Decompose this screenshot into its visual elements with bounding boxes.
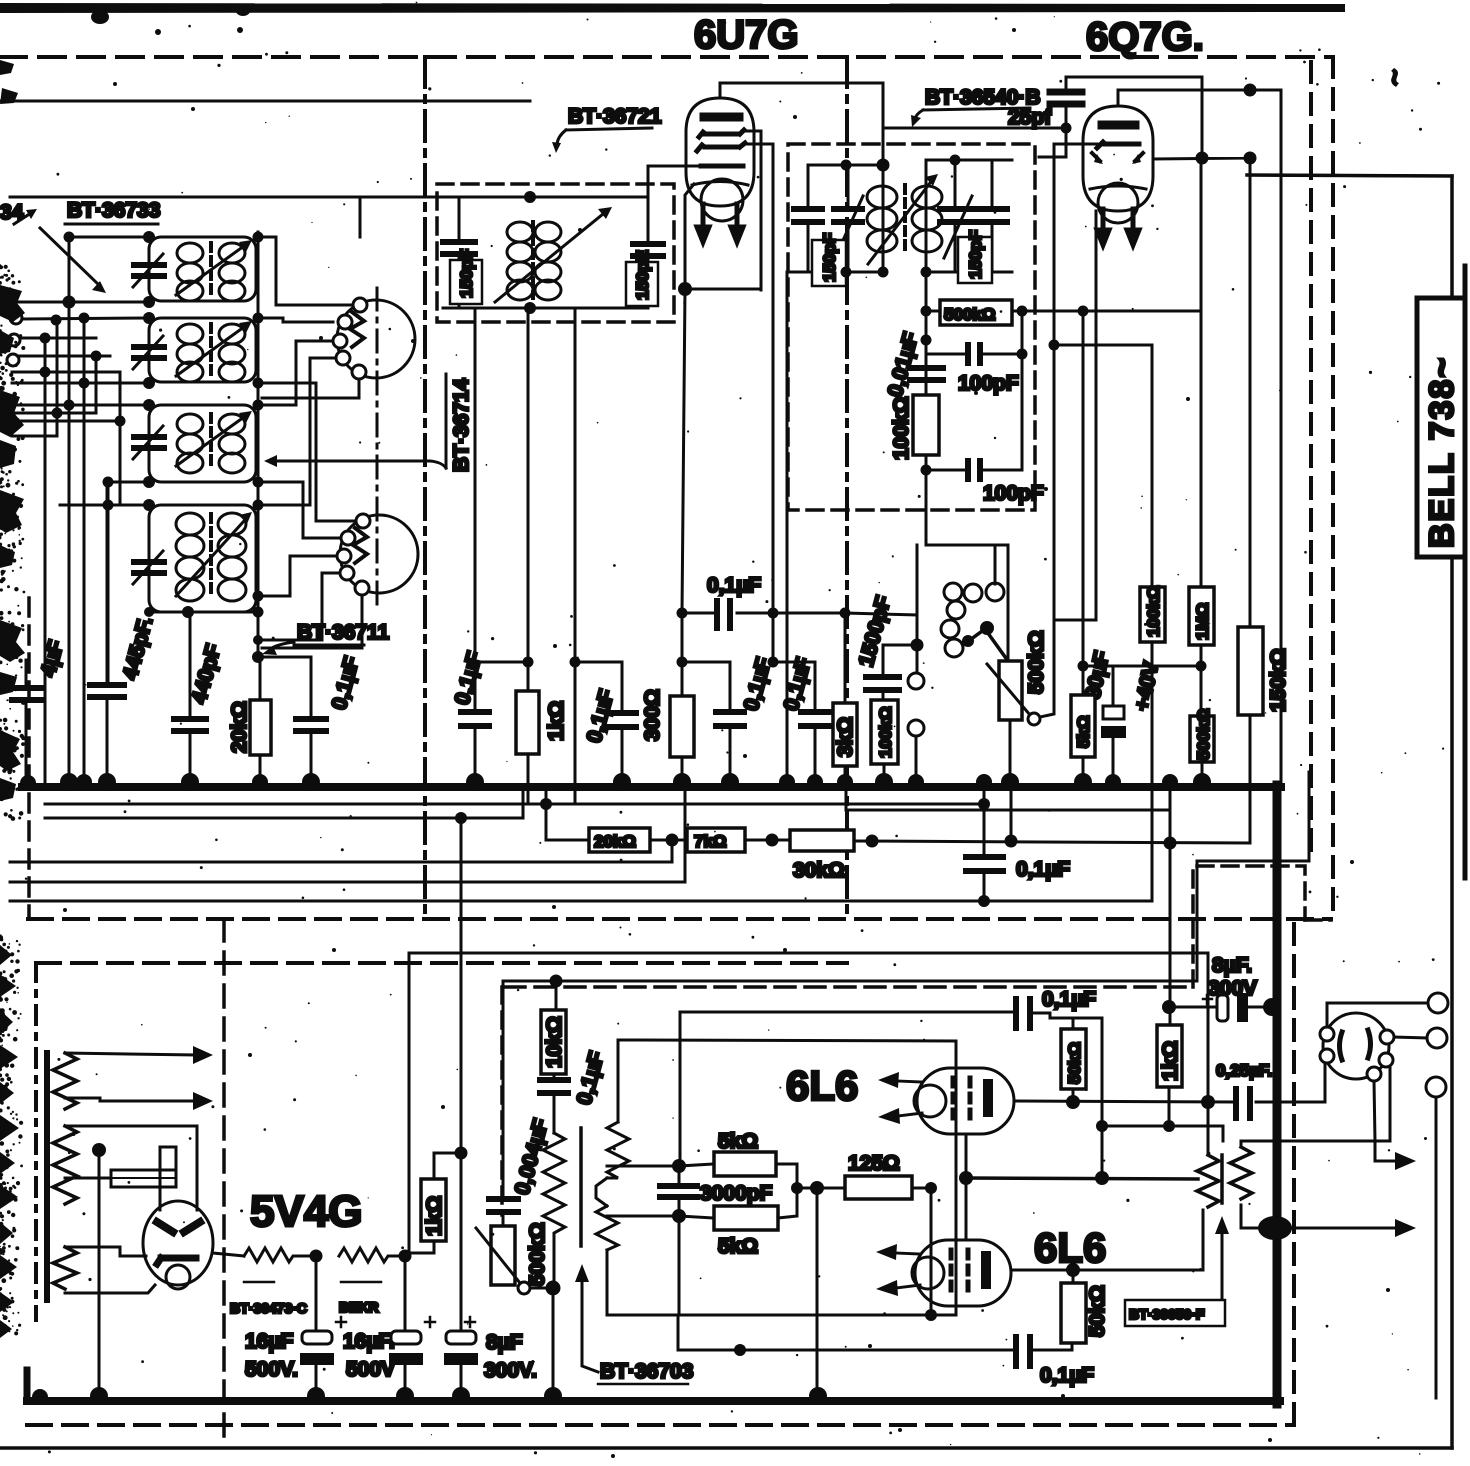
band switch SW2 body (340, 515, 418, 593)
wire cathodes join vertical (965, 1134, 968, 1240)
junction dot 1169 1126 (1163, 1120, 1175, 1132)
wire stub 685 bus-882 (684, 790, 687, 882)
wire 8uF psu bottom (460, 1365, 463, 1393)
wire IF1 vert x575 down (574, 308, 577, 803)
label line BT-36473-C (244, 1281, 274, 1284)
top border bar (0, 3, 1345, 13)
dashed box top section right outer edge (1331, 57, 1335, 918)
wire IF1 top node (443, 196, 648, 199)
label BT-36714 arrow (272, 461, 446, 468)
capacitor 16uF no1 plus sign (336, 1317, 346, 1327)
tube 6Q7G heater arrow left (1097, 209, 1109, 245)
label box IF2 150pF right (958, 237, 992, 283)
tube 6U7G grid2 dashes (697, 143, 745, 151)
band switch SW2 wiper zigzag (353, 528, 367, 563)
tuned circuit S1 loop (149, 237, 256, 301)
svg-text:BT·36703: BT·36703 (600, 1360, 693, 1383)
svg-text:3kΩ: 3kΩ (834, 717, 857, 757)
wire grid line vertical x956 (955, 1041, 958, 1315)
junction dot 917 645 (911, 639, 924, 652)
tube 6Q7G plate (1102, 121, 1135, 130)
cap ant left plates (12, 688, 41, 700)
coil S3 core (209, 414, 213, 468)
fuse inner bar (111, 1177, 176, 1179)
svg-text:10kΩ: 10kΩ (543, 1016, 566, 1068)
wire y662 link 773-815 (773, 662, 815, 712)
tube 6L6 no2 plate bar (981, 1256, 991, 1284)
wire bundle h y337 (20, 337, 96, 340)
wire b+ feed x461 vertical (460, 818, 463, 1331)
antenna terminal A1 (10, 312, 22, 324)
coil IF1 right (535, 222, 561, 300)
transformer winding W3 (53, 1247, 77, 1289)
capacitor IF2 varcap right (940, 209, 970, 222)
wire 6U7G cathode lead (685, 184, 694, 288)
wire bundle h y319 (22, 318, 149, 319)
coil IF1 core (531, 222, 535, 298)
junction dot W2 tap (92, 1143, 106, 1157)
capacitor 0,1uF no2 (608, 713, 636, 727)
label BT-36721 underline and arrow (557, 128, 652, 144)
varcap S4 arrow (133, 551, 163, 584)
junction dots S columns (143, 231, 194, 618)
wire secondary top y1141 (1241, 1060, 1390, 1147)
wire speaker pin5 (1374, 1081, 1375, 1141)
tube 6U7G heater arrow right (731, 204, 743, 242)
resistor 300 ohm body (670, 696, 694, 757)
svg-text:1MΩ: 1MΩ (1193, 603, 1212, 640)
junction dot 672 840 (666, 834, 679, 847)
wire IF1 left cap leads (458, 197, 461, 308)
wire bundle h y405 (12, 404, 149, 407)
coil S2 core (209, 324, 213, 376)
resistor 100k avc body (1140, 587, 1165, 642)
wire 6U7G grid3 lead to IF1 (648, 166, 701, 244)
wire 5k bias vertical (1082, 311, 1085, 695)
wire 01uF5 bottom (814, 726, 817, 785)
svg-text:BELL 738~: BELL 738~ (1423, 356, 1461, 548)
wire 16uF1 leads (315, 1256, 318, 1393)
wire pot bottom to bus (1009, 720, 1012, 785)
wire W3 leads to rectifier (65, 1247, 155, 1293)
label BT-36650-F arrow (1221, 1234, 1224, 1303)
wire bias line y666 (1083, 665, 1201, 668)
wire IF2 cap1 leads (807, 165, 810, 272)
capacitor IF2 150pF left fixed (794, 209, 822, 222)
wire grid1 feed corner (617, 1040, 620, 1122)
tuned circuit S4 loop (149, 505, 256, 612)
svg-text:BT·36711: BT·36711 (297, 621, 390, 644)
junction dot 1083 666 (1078, 661, 1089, 672)
resistor 125 ohm body (845, 1176, 912, 1199)
wire 500k det left lead (926, 310, 940, 313)
junction dot 966 1178 (959, 1171, 973, 1185)
wafer wiper dots (962, 621, 994, 647)
switch contact lower (908, 720, 924, 736)
junction dot 25pF node (1061, 123, 1072, 134)
wire S1 top tap (256, 237, 276, 305)
tube 6U7G cathode arc (692, 182, 748, 186)
wire IF1 bottom node (443, 307, 648, 310)
capacitor 16uF no1 minus plate (300, 1353, 334, 1365)
wire switch1 pin5 drop (262, 378, 359, 398)
varcap S3 (134, 437, 164, 448)
junction dot 553 1288 (546, 1281, 561, 1296)
label box IF1 150pF right (626, 262, 658, 306)
tube 5V4G filament bar (157, 1258, 196, 1264)
capacitor 1500pF (866, 677, 899, 690)
wire det chain bottom (926, 455, 1008, 661)
wire avc branch y345 (1054, 345, 1152, 587)
junction dot 1208 1102 (1201, 1095, 1215, 1109)
tuned circuit S2 loop (149, 318, 256, 382)
svg-text:5kΩ: 5kΩ (718, 1130, 758, 1153)
wire S3 bottom tap to switch2 (256, 482, 341, 538)
tone indicator bar (579, 1128, 583, 1246)
resistor 30k ohm body h (790, 830, 854, 851)
potentiometer wiper circle (1028, 713, 1040, 725)
tube 6L6 no1 plate bar (983, 1084, 993, 1112)
tube 6L6 no1 envelope (917, 1068, 1014, 1134)
resistor zigzag tall tone (543, 1133, 565, 1288)
resistor 5k bias body (1071, 695, 1095, 757)
resistor zigzag splitter lower (596, 1206, 618, 1250)
wire bus bottom heavy horizontal (27, 1397, 1280, 1405)
junction dot 528 662 (523, 657, 534, 668)
coil IF2 core (903, 185, 907, 255)
capacitor 16uF no2 plus sign (425, 1317, 435, 1327)
svg-text:16µF.: 16µF. (343, 1330, 395, 1353)
wire splitter junction to caps (607, 1166, 679, 1216)
antenna terminal A2 (8, 334, 20, 346)
wire 6Q7G plate lead top (1118, 90, 1281, 106)
wire bundle h y372 (12, 371, 120, 374)
label BT-36540-B underline arrow (915, 108, 1030, 119)
wire diode return y158 (1153, 158, 1452, 176)
wire 20k-7k link (650, 839, 687, 842)
coil S2 left (177, 324, 203, 382)
wire 1k psu top (434, 1153, 461, 1179)
dashed box bottom section right edge (1292, 924, 1296, 1425)
wire fuse leads (65, 1147, 176, 1210)
output terminal 3 (1426, 1077, 1446, 1097)
coil S3 right (219, 414, 245, 473)
tube 6U7G envelope (686, 98, 754, 206)
resistor 100k ohm det body (913, 395, 939, 455)
svg-text:5kΩ: 5kΩ (1074, 715, 1093, 748)
wire 1M vertical top (1200, 158, 1203, 587)
resistor 500k det box (940, 300, 1012, 325)
capacitor 8uF psu plus sign (465, 1317, 475, 1327)
label BT-36711 arrow (270, 642, 294, 649)
wire to 1k psu (405, 1241, 434, 1253)
junction dot 845 613 (840, 608, 851, 619)
dashed box bottom section left edge (34, 963, 38, 1320)
wire plate1 line y1102 (1014, 1056, 1325, 1102)
svg-text:BT·36650·F: BT·36650·F (1129, 1306, 1205, 1322)
wire 6U7G plate top lead (720, 83, 883, 162)
wire IF2 varcap1 leads (847, 165, 850, 272)
coil S1 left (177, 243, 203, 301)
wire IF2 left top node (811, 164, 883, 167)
capacitor 0,25uF plates (1236, 1089, 1250, 1118)
svg-text:0,1µF: 0,1µF (1040, 1364, 1094, 1387)
wire speaker top pin (1327, 1003, 1428, 1027)
label BT-36650-F box (1125, 1300, 1225, 1326)
junction dot 461 1153 (455, 1147, 468, 1160)
wire cap 01uF0 bottom (310, 731, 313, 785)
svg-text:50kΩ: 50kΩ (1086, 1285, 1109, 1337)
resistor 1M ohm body (1189, 587, 1214, 645)
capacitor 0,1uF out1 (1016, 999, 1030, 1028)
junction dot 1250 90 (1244, 84, 1257, 97)
label box IF2 150pF left (812, 240, 846, 286)
wire IF2 left bottom node (787, 271, 883, 274)
wire rectifier output (213, 1253, 244, 1256)
wire 5k right joins (776, 1164, 845, 1218)
label fragment arrow (14, 213, 31, 224)
tube 6L6 no1 dome circle (914, 1085, 946, 1117)
resistor 50k no1 body (1061, 1029, 1086, 1089)
capacitor IF1 150pF right (633, 244, 663, 256)
wire bundle h y421 (12, 420, 120, 423)
wire IF2 right top node (926, 159, 1012, 162)
output terminal 2 (1427, 1028, 1447, 1048)
coil S4 core (209, 514, 213, 598)
antenna terminal A3 (7, 354, 19, 366)
wire y662 link 475-528 (475, 661, 528, 664)
wire y662 link 682-730 (682, 662, 730, 712)
band switch SW1 body (337, 300, 415, 378)
wire stub band vertical (359, 197, 362, 237)
varcap S1 (134, 265, 164, 276)
wire S3 tap x296 (256, 341, 333, 405)
wire 100pF upper (926, 311, 1022, 354)
capacitor 30uF electrolytic plus plate (1103, 706, 1124, 719)
resistor 150k ohm body (1238, 627, 1263, 715)
wire bundle h y482 (108, 481, 149, 484)
wire detector chain top (925, 272, 928, 395)
svg-text:BT·36721: BT·36721 (568, 105, 662, 128)
coil S1 core (209, 243, 213, 295)
dashed box bottom section top edge (36, 961, 847, 965)
wire 817 down to bus2 (816, 1188, 819, 1393)
svg-text:500kΩ: 500kΩ (526, 1222, 549, 1286)
band switch SW2 pins (337, 514, 370, 595)
svg-text:100kΩ: 100kΩ (876, 707, 895, 758)
coil S3 tuning arrow (176, 417, 244, 466)
junction dot 1250 158 (1244, 152, 1257, 165)
wire transformer primary top (1207, 953, 1210, 1155)
wire 100k avc bottom (1151, 642, 1154, 901)
junction dot 817 1188 (810, 1181, 824, 1195)
wire switch1 pin row y305 (276, 304, 353, 307)
tube 6L6 no1 grid dashes (953, 1078, 970, 1118)
capacitor 440pF (174, 719, 206, 731)
wire switch2 pin5 drop (262, 594, 362, 648)
wire ant cap v (25, 660, 28, 785)
capacitor 8uF 300V minus plate (1237, 993, 1248, 1022)
wire 6Q7G cathode down (1095, 211, 1098, 620)
tuned circuit S3 loop (149, 405, 256, 482)
svg-text:BEKR: BEKR (339, 1299, 379, 1315)
tube 5V4G envelope (143, 1201, 213, 1285)
junction dot det 340 (921, 335, 932, 346)
svg-text:30kΩ: 30kΩ (793, 859, 845, 882)
wire 5k bias bottom (1082, 757, 1085, 785)
wire 50k1 top lead (1072, 1018, 1075, 1029)
wire 10k top corner (502, 981, 505, 1199)
wire screen feed y1012 (680, 1011, 1016, 1014)
wire bundle h y411 (12, 412, 96, 415)
coil IF1 tuning arrow (495, 214, 603, 302)
tube 6U7G grid3 dashes (701, 164, 743, 169)
svg-text:150pF: 150pF (457, 249, 476, 298)
dashed box top section right inner edge (1309, 62, 1313, 860)
svg-text:0,1µF: 0,1µF (707, 574, 761, 597)
junction dot 1022 311 (1017, 306, 1028, 317)
output transformer core bar (1220, 1155, 1224, 1203)
wire bundle v x120 (119, 372, 122, 505)
wire heavy left stub (24, 1370, 31, 1398)
label BT-36733 underline (65, 223, 158, 226)
wire cathode to grid join (1054, 619, 1096, 622)
svg-text:5V4G: 5V4G (250, 1187, 363, 1236)
wire top long horizontal (0, 100, 530, 103)
capacitor 0,1uF tone (540, 1080, 568, 1093)
wire IF1 vert x475 down (474, 308, 477, 662)
wire cathode bias h (685, 288, 761, 291)
junction dot 1073 1270 (1066, 1263, 1080, 1277)
wire bundle h y355 (19, 355, 110, 358)
svg-text:6Q7G.: 6Q7G. (1086, 15, 1204, 59)
wire 6U7G grid2 lead (744, 144, 773, 662)
resistor 500k agc body (1190, 716, 1214, 762)
label BT-36703 arrow (582, 1282, 598, 1372)
junction dot 316 1256 (310, 1250, 323, 1263)
capacitor 8uF 300V plus plate (1217, 995, 1228, 1021)
resistor 5k lower body (714, 1206, 778, 1230)
svg-text:300V.: 300V. (484, 1359, 537, 1382)
svg-text:500kΩ: 500kΩ (944, 305, 995, 324)
bus bumps row (20, 773, 1211, 791)
coil IF2 left (867, 165, 897, 272)
varcap S4 (134, 562, 164, 573)
dashed separator IF vertical (845, 57, 849, 918)
capacitor 16uF no2 plus plate (391, 1331, 421, 1344)
resistor 50k no2 body (1061, 1283, 1086, 1343)
tube 5V4G anode right (184, 1222, 200, 1232)
coil S4 tuning arrow (176, 521, 244, 596)
svg-text:6L6: 6L6 (786, 1062, 858, 1109)
junction dot 772 840 (766, 834, 779, 847)
capacitor 8uF 300V plus sign (1203, 995, 1212, 1004)
wire switch2 pin4 tap (262, 573, 340, 640)
svg-text:8µF: 8µF (486, 1331, 523, 1354)
junction blob heavy 1228 (1258, 1216, 1292, 1240)
switch contact upper (908, 673, 924, 689)
svg-text:50kΩ: 50kΩ (1065, 1042, 1084, 1084)
wafer switch circles (941, 583, 1004, 657)
speaker socket pins (1320, 1027, 1394, 1081)
wire 50k2 top (1072, 1270, 1075, 1283)
junction dot 1102 1178 (1095, 1171, 1109, 1185)
wire 25pF top line (1066, 77, 1202, 158)
junction dot 872 841 (866, 835, 879, 848)
varcap S2 arrow (133, 336, 163, 369)
transformer winding W1 (53, 1053, 77, 1109)
junction dot 6U7G cathode (678, 282, 692, 296)
page border bottom edge (0, 1446, 1452, 1450)
wire 7k-30k link (745, 839, 790, 842)
tube 6U7G heater arrow left (697, 204, 709, 242)
wire 3k leads (844, 613, 847, 785)
wire bus heavy right vertical (1273, 785, 1282, 1404)
wire splitter mid jog (596, 1178, 607, 1206)
heater feed arrow 1 (65, 1053, 196, 1055)
wire 1k if leads (527, 662, 530, 803)
capacitor 8uF psu minus plate (444, 1353, 478, 1365)
tube 6Q7G diode arrows (1092, 153, 1143, 161)
junction dot 1201 666 (1196, 661, 1207, 672)
svg-text:100pF: 100pF (958, 372, 1019, 395)
wire grid 6Q7G down (1053, 144, 1056, 620)
wire 500k det right to 1M (1012, 310, 1201, 313)
tube 6L6 no1 cathode arrow upper (898, 1081, 922, 1082)
wire S4 tap to switch2 (256, 556, 337, 596)
wire bundle h y505 (60, 504, 149, 507)
wire 150k bottom (1249, 715, 1252, 843)
svg-text:BT·36733: BT·36733 (67, 199, 160, 222)
tube 6Q7G base circle (1098, 183, 1138, 223)
label BT-36714 underline (445, 374, 448, 468)
junction dot 773 613 (768, 608, 779, 619)
wire stub 672 down (671, 840, 674, 862)
resistor 3k ohm body boxed (833, 703, 857, 766)
potentiometer tone wiper circle (518, 1282, 530, 1294)
potentiometer 500k volume body (999, 661, 1022, 720)
wire bundle h y435 (12, 435, 57, 438)
wire step to cathode line (677, 1315, 680, 1350)
wire 01uF2 bottom (621, 727, 624, 785)
wire speaker right pin (1394, 1037, 1427, 1038)
speaker socket body (1323, 1013, 1389, 1079)
junction dot 773 662 (768, 657, 779, 668)
wire bundle v x57 (56, 320, 59, 436)
svg-text:100kΩ: 100kΩ (1144, 586, 1163, 637)
capacitor IF2 150pF right fixed (976, 209, 1007, 222)
wire 20k leads (259, 657, 262, 785)
wire 3000pF leads (678, 1166, 681, 1315)
noise left edge lower sawtooth (0, 945, 19, 1338)
resistor 7k ohm boxed h (687, 828, 745, 852)
svg-text:0,1µF: 0,1µF (1016, 858, 1070, 881)
capacitor 0,1uF no5 (801, 712, 829, 726)
svg-text:500V.: 500V. (245, 1358, 298, 1381)
junction dot 931 1188 (925, 1182, 937, 1194)
wire bundle v x96 (95, 356, 98, 413)
svg-text:500kΩ: 500kΩ (1025, 630, 1048, 694)
varcap IF2 left arrow (835, 196, 863, 258)
svg-text:500V: 500V (346, 1358, 395, 1381)
svg-text:1kΩ: 1kΩ (545, 701, 568, 741)
junction dot IF1 top (524, 191, 536, 203)
page border top-right segment (1247, 175, 1452, 176)
wire 25pF bottom to IF (883, 104, 1066, 157)
capacitor 8uF psu plus plate (446, 1331, 476, 1344)
wire IF2 right bottom node (926, 271, 1012, 274)
capacitor 3000pF plates (660, 1186, 697, 1197)
